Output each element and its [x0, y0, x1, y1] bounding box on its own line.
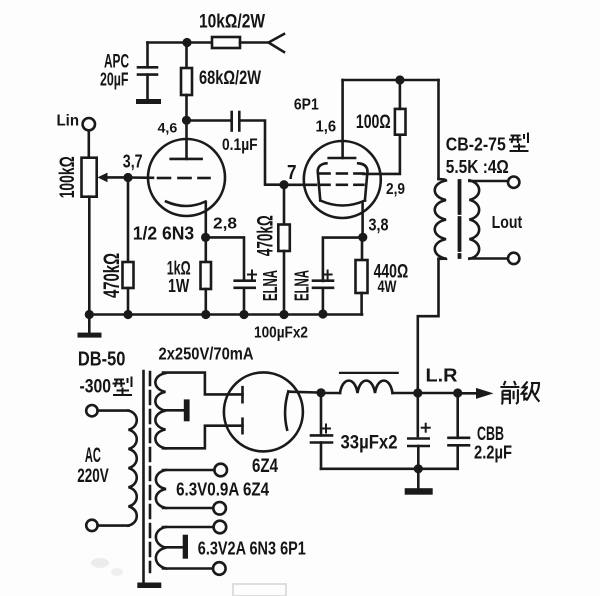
wire heater2 bottom	[163, 567, 213, 570]
capacitor 33µF C2	[408, 393, 428, 469]
tube V2 plate lead	[341, 80, 344, 158]
capacitor ELNA B 100µF	[313, 281, 333, 314]
plus sign ELNA A	[248, 271, 256, 279]
label xing glyph 2	[113, 377, 133, 396]
heater2 center tap bar	[183, 535, 188, 559]
node bus 470k	[123, 310, 132, 319]
tube V2 cathode	[320, 201, 365, 206]
wire choke to node LR	[393, 392, 418, 395]
svg-text:CB-2-75: CB-2-75	[446, 134, 506, 155]
wire node 3,8 to resistor 440	[361, 237, 364, 260]
wire heater2 top	[163, 526, 214, 529]
svg-text:6Z4: 6Z4	[252, 456, 278, 477]
resistor 1kΩ 1W	[201, 262, 212, 289]
ground PT core	[137, 583, 161, 589]
wire to arrow	[458, 392, 478, 395]
svg-text:AC: AC	[85, 444, 101, 467]
wire HV top to plate 1	[163, 373, 243, 395]
capacitor APC 20µF	[138, 43, 157, 100]
terminal AC bottom	[86, 520, 97, 531]
tube V2 plate	[329, 157, 355, 160]
tube V3 cathode lead	[289, 390, 322, 393]
wire resistor 68k to node 4,6	[185, 95, 188, 120]
tube V3 plate bar 2	[241, 419, 244, 434]
node rail	[395, 75, 404, 84]
node 2,8	[201, 233, 210, 242]
tube V2 grid lead	[284, 184, 316, 187]
wire node 4,6 to cap 0.1	[187, 119, 232, 122]
scan artifact bottom center	[233, 584, 286, 596]
PT core solid line	[142, 371, 145, 582]
svg-text:220V: 220V	[77, 466, 109, 487]
wire heater1 bottom	[163, 507, 213, 510]
wire rectifier node to choke	[321, 392, 340, 395]
svg-text:Lin: Lin	[57, 113, 80, 130]
terminal heater2 top	[214, 521, 227, 534]
tube V2 6P1 envelope	[304, 141, 381, 218]
svg-text:6.3V0.9A 6Z4: 6.3V0.9A 6Z4	[176, 480, 269, 500]
wire resistor 10k to connector	[240, 41, 269, 44]
svg-text:1/2 6N3: 1/2 6N3	[133, 223, 195, 244]
svg-text:4,6: 4,6	[158, 120, 178, 136]
label qianji glyph qian	[500, 381, 519, 404]
ground filter	[405, 488, 433, 495]
terminal heater1 top	[214, 464, 227, 477]
connector open arrow	[269, 34, 285, 52]
svg-text:ELNA: ELNA	[260, 270, 282, 301]
svg-text:470kΩ: 470kΩ	[99, 253, 124, 298]
wire resistor 470k to bus	[127, 288, 130, 315]
PT heater winding 6.3V2A	[156, 527, 166, 569]
svg-text:100kΩ: 100kΩ	[56, 156, 79, 198]
wire node wiper to resistor 470k	[127, 178, 130, 263]
OPT secondary winding	[469, 180, 479, 258]
wire node 2,8 to resistor 1k	[205, 237, 208, 262]
heater2 center tap	[166, 546, 183, 549]
tube V2 screen dashes	[320, 172, 364, 175]
label xing glyph 1	[509, 133, 529, 152]
wire bus to ground	[88, 315, 91, 333]
choke core line	[340, 372, 398, 374]
wire cap 0.1 to node 7	[239, 121, 284, 185]
plus sign ELNA B	[324, 271, 332, 279]
node bus ELNA B	[318, 309, 327, 318]
svg-text:470kΩ: 470kΩ	[253, 215, 278, 256]
svg-text:Lout: Lout	[492, 212, 523, 232]
svg-text:100Ω: 100Ω	[356, 112, 391, 133]
svg-text:68kΩ/2W: 68kΩ/2W	[199, 68, 261, 89]
tube V3 cathode	[285, 391, 288, 429]
tube V1 grid dashes	[158, 177, 210, 180]
wire Lin to pot	[88, 130, 91, 157]
wire resistor 440 to bus	[360, 293, 363, 315]
wire screen to 100Ω	[364, 135, 400, 174]
svg-text:7: 7	[287, 162, 297, 184]
svg-text:L.R: L.R	[426, 365, 458, 386]
wire heater1 top	[163, 469, 214, 472]
capacitor CBB 2.2µF	[449, 393, 470, 469]
tube V3 6Z4 envelope	[224, 372, 303, 451]
node 3,8	[358, 233, 367, 242]
wire filter ground	[417, 469, 420, 488]
svg-text:3,7: 3,7	[123, 151, 143, 172]
wire resistor 470k #2 to bus	[283, 251, 286, 315]
node top junction	[182, 38, 191, 47]
tube V2 grid dashes	[320, 184, 364, 187]
tube V1 plate lead	[185, 120, 188, 159]
plus sign C2	[422, 424, 430, 432]
node filter bottom	[414, 464, 423, 473]
HV center tap bar	[184, 399, 190, 421]
node 4,6	[182, 116, 191, 125]
capacitor 33µF C1	[311, 392, 332, 469]
ground bus wire	[89, 313, 362, 316]
node pot wiper	[123, 173, 132, 182]
wire OPT secondary top	[469, 180, 507, 183]
node L.R	[413, 388, 422, 397]
OPT core	[458, 181, 462, 257]
wire 100Ω to rail	[399, 80, 402, 109]
svg-text:-300: -300	[80, 377, 112, 398]
node bus 1k	[201, 310, 210, 319]
wire node to resistor 68k	[185, 43, 188, 69]
svg-text:20µF: 20µF	[100, 70, 129, 90]
tube V3 plate bar 1	[241, 387, 244, 402]
wire OPT primary bottom B+	[418, 259, 439, 393]
terminal Lout top	[508, 177, 519, 188]
svg-text:33µFx2: 33µFx2	[341, 432, 398, 454]
resistor 68kΩ/2W	[181, 68, 192, 95]
tube V1 cathode lead	[205, 202, 208, 237]
svg-text:6P1: 6P1	[294, 97, 319, 114]
filter bottom rail	[321, 467, 458, 470]
node output	[453, 388, 462, 397]
potentiometer 100kΩ	[82, 158, 97, 197]
node 7	[279, 180, 288, 189]
wire AC top	[98, 409, 129, 412]
resistor 470kΩ grid V2	[278, 225, 290, 252]
wire OPT primary top	[437, 80, 440, 179]
wire pot to ground bus	[88, 197, 91, 315]
ground main bus	[78, 333, 102, 338]
wire AC bottom	[98, 524, 129, 527]
wire LR to node 2	[418, 392, 458, 395]
svg-text:10kΩ/2W: 10kΩ/2W	[199, 11, 265, 33]
label qianji glyph ji	[522, 382, 540, 402]
wire wiper to pot	[106, 176, 128, 179]
tube V1 cathode	[166, 202, 206, 207]
svg-text:1,6: 1,6	[316, 119, 337, 136]
svg-text:0.1µF: 0.1µF	[222, 135, 258, 154]
tube V1 plate	[171, 158, 202, 161]
transformer PT primary winding	[129, 411, 137, 526]
resistor 100Ω	[395, 109, 406, 135]
PT HV winding 2x250V	[155, 373, 165, 448]
choke winding	[340, 381, 393, 393]
tube V2 cathode lead	[361, 204, 364, 238]
svg-text:6.3V2A 6N3 6P1: 6.3V2A 6N3 6P1	[198, 539, 306, 559]
OPT primary winding	[435, 179, 446, 259]
resistor 440Ω 4W	[356, 260, 368, 293]
node rectifier out	[316, 388, 325, 397]
capacitor 0.1µF	[232, 112, 240, 131]
svg-text:ELNA: ELNA	[291, 270, 313, 301]
plus sign C1	[322, 425, 330, 433]
wire top node to resistor 10k	[187, 41, 212, 44]
terminal heater2 bottom	[213, 562, 226, 575]
svg-text:5.5K :4Ω: 5.5K :4Ω	[446, 156, 509, 177]
tube V2 beam plates	[318, 163, 368, 200]
wire node 3,8 to cap ELNA B	[323, 238, 363, 281]
svg-text:2x250V/70mA: 2x250V/70mA	[159, 344, 254, 364]
resistor 470kΩ grid V1	[123, 262, 134, 288]
wire resistor 1k to bus	[205, 289, 208, 315]
PT heater winding 6.3V0.9A	[156, 470, 166, 508]
wire HV bottom to plate 2	[163, 426, 243, 449]
svg-text:1W: 1W	[168, 276, 189, 296]
PT core dashed line	[149, 372, 152, 572]
scan smudge bottom left	[91, 558, 109, 568]
resistor 10kΩ/2W	[212, 37, 240, 48]
terminal heater1 bottom	[213, 502, 226, 515]
B+ rail	[343, 79, 439, 82]
svg-text:2,8: 2,8	[213, 216, 237, 233]
svg-text:100µFx2: 100µFx2	[254, 325, 308, 342]
ground APC	[136, 99, 161, 104]
wire top node to APC cap	[148, 41, 188, 44]
node bus grid2	[279, 310, 288, 319]
svg-text:4W: 4W	[378, 277, 398, 296]
pot wiper arrow	[98, 173, 108, 183]
tube V1 6N3 envelope	[148, 139, 225, 216]
capacitor ELNA A 100µF	[235, 281, 255, 315]
HV center tap	[166, 409, 184, 412]
terminal Lin	[83, 118, 95, 130]
wire OPT secondary bottom	[469, 257, 507, 260]
node bus ELNA A	[239, 310, 248, 319]
node bus pot	[85, 310, 94, 319]
svg-text:2.2µF: 2.2µF	[474, 443, 512, 463]
arrow to preamp	[476, 388, 494, 399]
wire grid lead V1	[128, 176, 153, 179]
svg-text:2,9: 2,9	[386, 181, 405, 198]
terminal AC top	[86, 405, 97, 416]
wire node 7 to resistor 470k #2	[283, 185, 286, 225]
terminal Lout bottom	[508, 253, 519, 264]
svg-text:DB-50: DB-50	[78, 348, 126, 371]
svg-text:3,8: 3,8	[369, 215, 389, 235]
wire node 2,8 to cap ELNA A	[206, 237, 244, 280]
